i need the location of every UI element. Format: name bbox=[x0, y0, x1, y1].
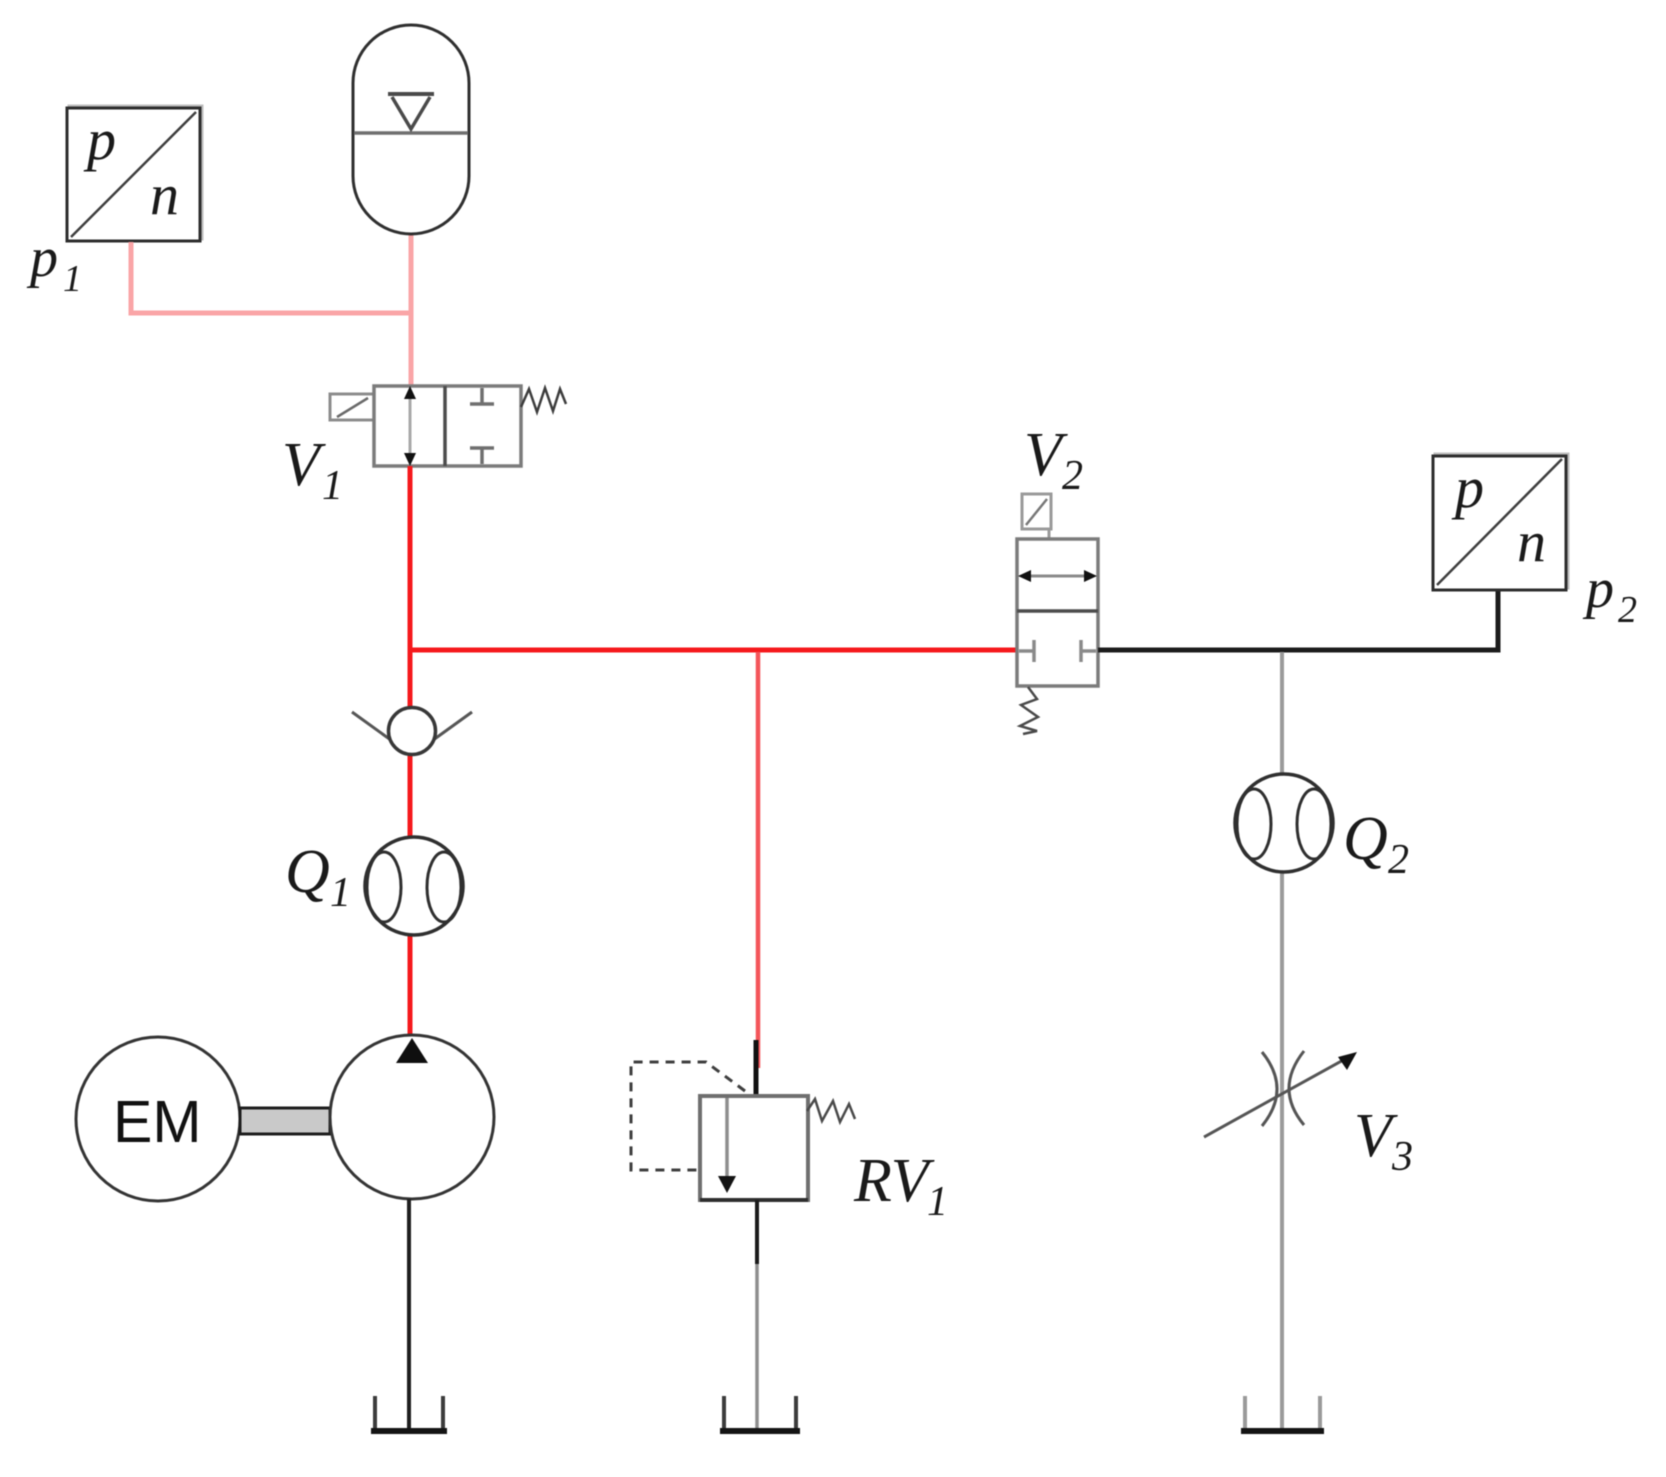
svg-text:p: p bbox=[26, 227, 58, 289]
svg-text:3: 3 bbox=[1391, 1134, 1413, 1180]
label Q1 bbox=[285, 838, 351, 916]
svg-text:EM: EM bbox=[113, 1089, 202, 1155]
pressure sensor p1 box bbox=[67, 106, 202, 241]
wire pump to tank bbox=[407, 1199, 411, 1431]
wire gray Q2 to tank bbox=[1280, 872, 1284, 1431]
label Q2 bbox=[1343, 805, 1409, 883]
wire red V1 to check valve bbox=[408, 466, 413, 708]
valve V2 spring bbox=[1020, 687, 1038, 734]
svg-text:2: 2 bbox=[1062, 453, 1083, 499]
valve V1 solenoid bbox=[330, 394, 374, 420]
svg-text:Q: Q bbox=[285, 838, 330, 906]
RV1 pilot dashed line bbox=[631, 1062, 745, 1170]
label RV1 bbox=[853, 1147, 948, 1225]
svg-text:V: V bbox=[282, 431, 326, 499]
accumulator bbox=[353, 25, 469, 234]
wire red Q1 to pump bbox=[408, 934, 413, 1041]
label V2 bbox=[1024, 421, 1083, 499]
throttle valve V3 bbox=[1204, 1051, 1357, 1137]
RV1 spring bbox=[807, 1099, 855, 1122]
flow meter Q2 bbox=[1235, 774, 1333, 872]
wire RV1 to tank bbox=[755, 1200, 759, 1431]
svg-text:RV: RV bbox=[853, 1147, 935, 1215]
svg-text:p: p bbox=[1582, 558, 1614, 620]
wire red main horizontal bbox=[408, 648, 1017, 653]
svg-text:1: 1 bbox=[927, 1179, 948, 1225]
svg-text:p: p bbox=[83, 107, 116, 172]
svg-text:1: 1 bbox=[322, 463, 343, 509]
flow meter Q1 bbox=[365, 837, 463, 935]
tank 2 bbox=[720, 1396, 800, 1431]
label V1 bbox=[282, 431, 343, 509]
relief valve RV1 body bbox=[700, 1096, 808, 1200]
svg-text:1: 1 bbox=[63, 258, 82, 300]
svg-text:2: 2 bbox=[1618, 589, 1637, 631]
wire pink accumulator to V1 bbox=[409, 232, 414, 388]
valve V2 solenoid bbox=[1022, 494, 1051, 540]
wire red to RV1 bbox=[756, 652, 761, 1068]
svg-text:p: p bbox=[1451, 455, 1484, 520]
label p2 bbox=[1582, 558, 1637, 631]
tank 1 bbox=[371, 1396, 447, 1431]
valve V2 open-position arrow bbox=[1018, 570, 1097, 582]
shaft bbox=[240, 1108, 330, 1134]
valve V1 body bbox=[374, 386, 521, 466]
check valve bbox=[352, 708, 472, 755]
svg-text:n: n bbox=[1517, 509, 1546, 574]
electric motor EM bbox=[76, 1037, 240, 1201]
label V3 bbox=[1354, 1102, 1413, 1180]
pressure sensor p2 box bbox=[1433, 454, 1568, 590]
valve V1 spring bbox=[521, 388, 566, 412]
svg-text:1: 1 bbox=[330, 870, 351, 916]
wire red check valve to Q1 bbox=[408, 754, 413, 839]
valve V1 blocked ports bbox=[470, 388, 494, 464]
svg-text:n: n bbox=[150, 162, 179, 227]
tank 3 bbox=[1241, 1396, 1324, 1431]
wire black into RV1 bbox=[754, 1040, 759, 1098]
label p1 bbox=[26, 227, 82, 300]
valve V2 blocked ports bbox=[1019, 640, 1096, 662]
wire gray branch to Q2 bbox=[1280, 652, 1284, 776]
svg-text:Q: Q bbox=[1343, 805, 1388, 873]
pump bbox=[330, 1035, 494, 1199]
valve V2 body bbox=[1017, 539, 1098, 686]
svg-text:2: 2 bbox=[1388, 837, 1409, 883]
wire pink from p1 down and right bbox=[131, 242, 411, 313]
valve V1 open-position arrow bbox=[404, 386, 416, 466]
wire black V2 to p2 bbox=[1098, 588, 1498, 650]
